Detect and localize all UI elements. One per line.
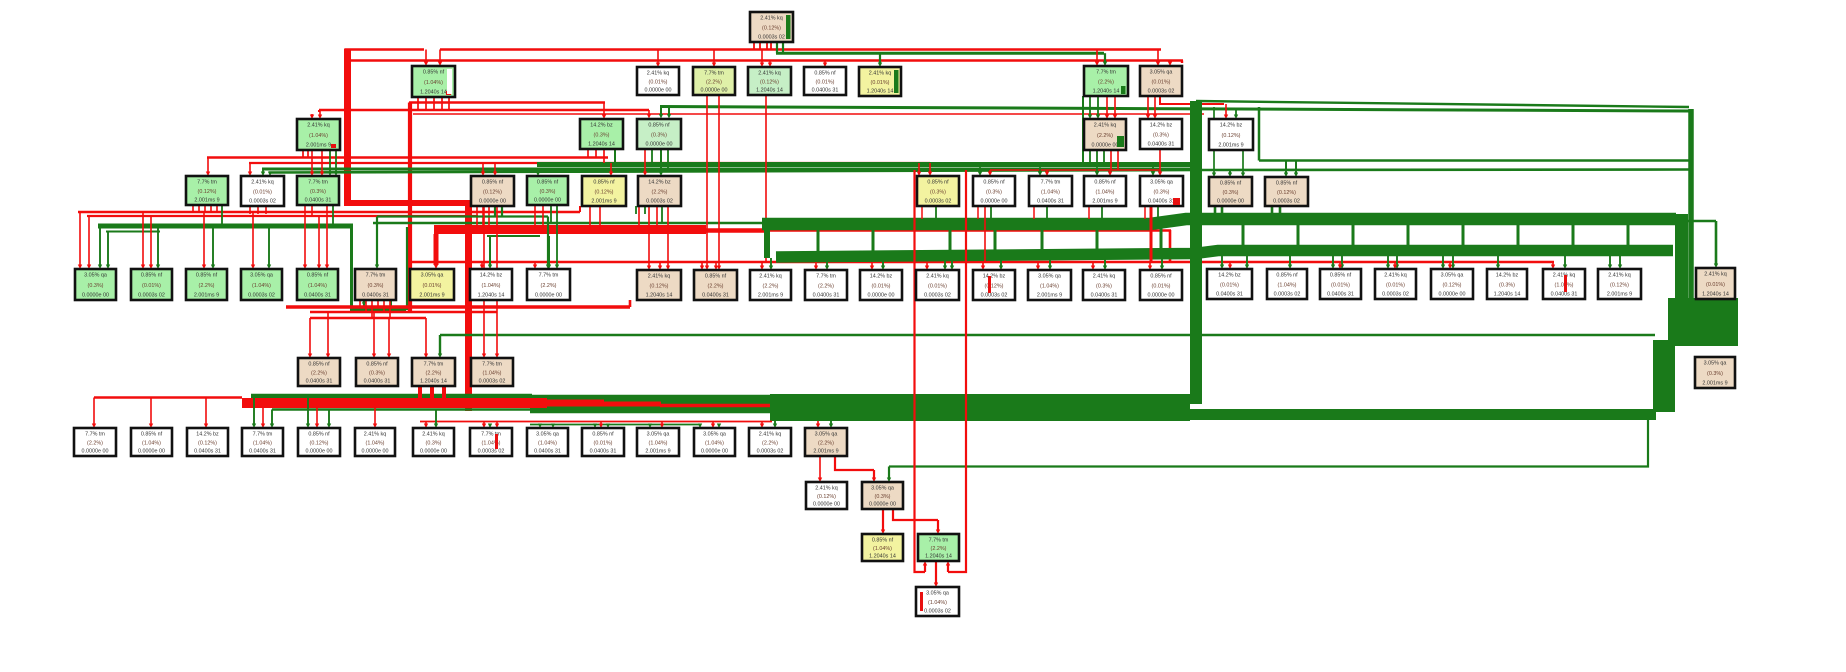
svg-text:3.05% qa: 3.05% qa: [1441, 273, 1464, 279]
svg-text:(0.01%): (0.01%): [1706, 282, 1725, 288]
green y216.5 line D4 to E6/E9: [377, 215, 548, 217]
node E8: [470, 269, 512, 300]
svg-text:0.0400s 31: 0.0400s 31: [194, 449, 221, 455]
C6 top arrows: [1160, 96, 1224, 104]
svg-text:0.0400s 31: 0.0400s 31: [362, 293, 389, 299]
svg-text:2.001ms 9: 2.001ms 9: [1092, 199, 1117, 205]
svg-text:2.001ms 9: 2.001ms 9: [1218, 143, 1243, 149]
band D left strip green: [251, 394, 532, 399]
arrows into F3: [425, 318, 427, 354]
svg-text:0.0000e 00: 0.0000e 00: [362, 449, 389, 455]
svg-text:14.2% bz: 14.2% bz: [1150, 123, 1173, 129]
svg-text:(2.2%): (2.2%): [708, 284, 724, 290]
green band left y231: [106, 231, 160, 233]
G14 to H1: [819, 456, 821, 478]
svg-text:0.0003s 02: 0.0003s 02: [758, 35, 785, 41]
svg-text:7.7% tm: 7.7% tm: [424, 362, 444, 368]
B1 red dot: [446, 91, 451, 95]
svg-text:0.0003s 02: 0.0003s 02: [646, 199, 673, 205]
svg-text:0.85% nf: 0.85% nf: [814, 71, 836, 77]
arrow into D6 from y162: [610, 163, 612, 172]
svg-text:(0.01%): (0.01%): [1331, 283, 1350, 289]
node E28: [1696, 268, 1735, 299]
svg-text:(1.04%): (1.04%): [308, 283, 327, 289]
svg-text:1.2040s 14: 1.2040s 14: [1494, 292, 1521, 298]
svg-text:(0.3%): (0.3%): [930, 190, 946, 196]
svg-text:(0.01%): (0.01%): [872, 284, 891, 290]
svg-text:3.05% qa: 3.05% qa: [1038, 274, 1061, 280]
node E16: [973, 270, 1015, 300]
node D4: [471, 176, 514, 206]
node G7: [413, 428, 454, 456]
A1 red stubs: [753, 42, 755, 49]
svg-text:0.0000e 00: 0.0000e 00: [479, 199, 506, 205]
arrows into D13 D14 from green: [1229, 171, 1231, 174]
D7 to E10 reds: [648, 206, 650, 266]
edge red top bus y50: [345, 48, 424, 51]
svg-text:2.001ms 9: 2.001ms 9: [1607, 292, 1632, 298]
svg-text:3.05% qa: 3.05% qa: [421, 273, 444, 279]
node D14: [1265, 177, 1308, 206]
svg-text:1.2040s 14: 1.2040s 14: [420, 379, 447, 385]
E15 green pair: [944, 258, 946, 266]
svg-text:2.41% kq: 2.41% kq: [759, 432, 781, 438]
svg-text:7.7% tm: 7.7% tm: [308, 180, 328, 186]
svg-text:0.0003s 02: 0.0003s 02: [249, 199, 276, 205]
B3 long drops to E11: [706, 95, 708, 266]
svg-text:0.85% nf: 0.85% nf: [308, 432, 330, 438]
node B7: [1084, 66, 1128, 96]
svg-text:0.0000e 00: 0.0000e 00: [82, 293, 109, 299]
B7 green mark: [1121, 86, 1126, 94]
svg-text:14.2% bz: 14.2% bz: [1220, 123, 1243, 129]
D12 red mark: [1173, 198, 1180, 205]
edge green y100 to right column: [660, 107, 1689, 112]
node G10: [582, 428, 624, 456]
svg-text:2.41% kq: 2.41% kq: [759, 274, 781, 280]
svg-text:3.05% qa: 3.05% qa: [250, 273, 273, 279]
svg-text:0.0003s 02: 0.0003s 02: [1382, 292, 1409, 298]
svg-text:(1.04%): (1.04%): [873, 546, 892, 552]
svg-text:(2.2%): (2.2%): [1098, 80, 1114, 86]
svg-text:(2.2%): (2.2%): [818, 441, 834, 447]
svg-text:0.0000e 00: 0.0000e 00: [1217, 199, 1244, 205]
svg-text:0.0000e 00: 0.0000e 00: [701, 449, 728, 455]
svg-text:0.0003s 02: 0.0003s 02: [1148, 89, 1175, 95]
node E17: [1028, 270, 1071, 300]
edge red y102: [409, 101, 605, 103]
node C6: [1209, 119, 1253, 150]
node D6: [582, 176, 626, 206]
D3 stubs: [304, 205, 306, 212]
svg-text:2.41% kq: 2.41% kq: [1384, 273, 1406, 279]
svg-text:3.05% qa: 3.05% qa: [1150, 70, 1173, 76]
G8 red dash: [495, 434, 498, 449]
svg-text:(1.04%): (1.04%): [1278, 283, 1297, 289]
svg-text:(0.3%): (0.3%): [1153, 133, 1169, 139]
svg-text:0.0003s 02: 0.0003s 02: [248, 293, 275, 299]
red thin y397 left: [94, 396, 242, 398]
arrows into F4 long from D4: [483, 206, 485, 354]
green y466 hook to H2: [889, 419, 1648, 467]
svg-text:0.85% nf: 0.85% nf: [423, 70, 445, 76]
svg-text:0.0400s 31: 0.0400s 31: [1148, 199, 1175, 205]
edge red y157: [207, 156, 608, 159]
svg-text:(0.01%): (0.01%): [594, 441, 613, 447]
node E18: [1083, 270, 1125, 300]
svg-text:(2.2%): (2.2%): [1097, 133, 1113, 139]
D3 to E5 long red: [326, 205, 328, 265]
node B4: [748, 67, 791, 95]
svg-text:1.2040s 14: 1.2040s 14: [925, 554, 952, 560]
svg-text:7.7% tm: 7.7% tm: [481, 432, 501, 438]
node E20: [1207, 269, 1252, 299]
D4 stubs red: [476, 206, 478, 230]
red y318: [310, 317, 426, 319]
E4 arrows: [252, 212, 254, 265]
svg-text:0.0400s 31: 0.0400s 31: [702, 293, 729, 299]
E5 arrows: [304, 212, 306, 265]
C3 stubs down to D7: [644, 148, 646, 172]
svg-text:0.0000e 00: 0.0000e 00: [868, 293, 895, 299]
right column green: [1190, 101, 1202, 404]
A-B connectors right: [1242, 225, 1245, 247]
A1 green stripe: [786, 15, 791, 39]
node E19: [1140, 270, 1182, 300]
svg-text:7.7% tm: 7.7% tm: [816, 274, 836, 280]
block right: [1668, 298, 1738, 346]
thick red horiz y203: [344, 200, 470, 206]
svg-text:2.001ms 9: 2.001ms 9: [591, 199, 616, 205]
node J1: [916, 587, 959, 616]
svg-text:0.85% nf: 0.85% nf: [1094, 180, 1116, 186]
D9 pin long: [984, 206, 986, 262]
svg-text:2.001ms 9: 2.001ms 9: [645, 449, 670, 455]
node E22: [1320, 269, 1361, 299]
svg-text:0.85% nf: 0.85% nf: [593, 180, 615, 186]
svg-text:2.41% kq: 2.41% kq: [1704, 272, 1726, 278]
edge red y114: [413, 113, 1204, 115]
svg-text:(0.01%): (0.01%): [928, 284, 947, 290]
svg-text:(0.12%): (0.12%): [310, 441, 329, 447]
node E2: [131, 269, 172, 300]
svg-text:2.41% kq: 2.41% kq: [422, 432, 444, 438]
svg-text:(1.04%): (1.04%): [1096, 190, 1115, 196]
node A1: [750, 12, 793, 42]
svg-text:0.0400s 31: 0.0400s 31: [590, 449, 617, 455]
svg-text:0.0000e 00: 0.0000e 00: [1439, 292, 1466, 298]
svg-text:0.0400s 31: 0.0400s 31: [1148, 142, 1175, 148]
node E15: [916, 270, 959, 300]
green band y172.5: [269, 170, 1689, 173]
node C2: [580, 119, 623, 149]
node E23: [1375, 269, 1416, 299]
svg-text:0.85% nf: 0.85% nf: [872, 538, 894, 544]
long red verticals to I2 hooks: [915, 170, 926, 572]
svg-text:(2.2%): (2.2%): [762, 441, 778, 447]
thick red band y230: [434, 225, 706, 234]
node G8: [470, 428, 512, 456]
svg-text:0.85% nf: 0.85% nf: [196, 273, 218, 279]
node E11: [694, 270, 737, 300]
svg-text:0.0400s 31: 0.0400s 31: [364, 379, 391, 385]
svg-text:2.41% kq: 2.41% kq: [364, 432, 386, 438]
H2 to I1: [882, 509, 884, 530]
green x407 drop: [406, 227, 408, 310]
svg-text:2.41% kq: 2.41% kq: [648, 274, 670, 280]
svg-text:0.85% nf: 0.85% nf: [366, 362, 388, 368]
C5 to D12: [1152, 165, 1154, 173]
svg-text:1.2040s 14: 1.2040s 14: [646, 293, 673, 299]
svg-text:0.0400s 31: 0.0400s 31: [812, 88, 839, 94]
green band y169: [262, 168, 1196, 171]
B1 white stripe: [447, 69, 452, 94]
node D8: [917, 176, 959, 206]
E26 red dash: [1564, 275, 1567, 292]
svg-text:7.7% tm: 7.7% tm: [1096, 70, 1116, 76]
node G1: [74, 428, 116, 456]
svg-text:7.7% tm: 7.7% tm: [85, 432, 105, 438]
svg-text:(0.12%): (0.12%): [1610, 283, 1629, 289]
edge red y212: [78, 211, 580, 214]
green y335 line to F3: [440, 334, 1655, 336]
node F5: [1695, 357, 1735, 388]
edge red top bus y61: [348, 59, 1183, 61]
C1 stubs down: [302, 150, 304, 158]
svg-text:(2.2%): (2.2%): [87, 441, 103, 447]
green thin y223 mid: [373, 222, 1195, 224]
svg-text:7.7% tm: 7.7% tm: [929, 538, 949, 544]
svg-text:(2.2%): (2.2%): [652, 190, 668, 196]
svg-text:2.41% kq: 2.41% kq: [1608, 273, 1630, 279]
F3 bottom stubs: [418, 386, 422, 400]
node G5: [298, 428, 340, 456]
svg-text:0.85% nf: 0.85% nf: [307, 273, 329, 279]
C2 stubs down: [587, 149, 589, 158]
H2 to I2: [893, 509, 938, 520]
svg-text:3.05% qa: 3.05% qa: [815, 432, 838, 438]
svg-text:0.0003s 02: 0.0003s 02: [981, 293, 1008, 299]
svg-text:3.05% qa: 3.05% qa: [647, 432, 670, 438]
svg-text:1.2040s 14: 1.2040s 14: [1093, 89, 1120, 95]
C1 red dot: [331, 144, 336, 148]
node E12: [750, 270, 791, 300]
svg-text:0.0400s 31: 0.0400s 31: [1551, 292, 1578, 298]
green band end hook into E6 bottom: [352, 227, 407, 310]
svg-text:2.001ms 9: 2.001ms 9: [758, 293, 783, 299]
svg-text:(1.04%): (1.04%): [366, 441, 385, 447]
svg-text:2.001ms 9: 2.001ms 9: [419, 293, 444, 299]
svg-text:(0.3%): (0.3%): [88, 283, 104, 289]
svg-text:0.0000e 00: 0.0000e 00: [82, 449, 109, 455]
node B5: [804, 67, 846, 95]
svg-text:0.0003s 02: 0.0003s 02: [925, 199, 952, 205]
svg-text:(0.3%): (0.3%): [1499, 283, 1515, 289]
red y307: [286, 305, 630, 309]
svg-text:2.41% kq: 2.41% kq: [1093, 274, 1115, 280]
red y230 thin continuation: [764, 229, 1171, 232]
svg-text:(0.3%): (0.3%): [594, 133, 610, 139]
svg-text:7.7% tm: 7.7% tm: [366, 273, 386, 279]
svg-text:0.85% nf: 0.85% nf: [1150, 274, 1172, 280]
D7 stubs: [638, 206, 640, 230]
D1 stubs: [192, 205, 194, 212]
svg-text:0.0400s 31: 0.0400s 31: [305, 198, 332, 204]
svg-text:(0.3%): (0.3%): [426, 441, 442, 447]
node E27: [1598, 269, 1641, 299]
svg-text:0.0003s 02: 0.0003s 02: [1273, 199, 1300, 205]
node G4: [242, 428, 283, 456]
D13 D14 pins into band A: [1214, 206, 1217, 219]
svg-text:0.0000e 00: 0.0000e 00: [869, 502, 896, 508]
node G3: [187, 428, 228, 456]
svg-text:2.001ms 9: 2.001ms 9: [306, 143, 331, 149]
svg-text:(1.04%): (1.04%): [252, 283, 271, 289]
B8 to C5: [1147, 96, 1149, 115]
svg-text:0.0400s 31: 0.0400s 31: [1037, 199, 1064, 205]
node E6: [355, 269, 396, 300]
svg-text:1.2040s 14: 1.2040s 14: [1702, 292, 1729, 298]
edge green y109: [1196, 101, 1689, 107]
svg-text:1.2040s 14: 1.2040s 14: [588, 142, 615, 148]
svg-text:1.2040s 14: 1.2040s 14: [756, 88, 783, 94]
svg-text:(0.12%): (0.12%): [198, 441, 217, 447]
svg-text:0.0400s 31: 0.0400s 31: [1327, 292, 1354, 298]
svg-text:(0.01%): (0.01%): [1152, 80, 1171, 86]
svg-text:0.0400s 31: 0.0400s 31: [249, 449, 276, 455]
E20-E27 arrows: [1221, 251, 1223, 265]
node D7: [638, 176, 681, 206]
band B: [776, 251, 1673, 258]
svg-text:(0.12%): (0.12%): [762, 26, 781, 32]
arrows into D2: [249, 163, 251, 172]
svg-text:0.85% nf: 0.85% nf: [927, 180, 949, 186]
svg-text:(0.01%): (0.01%): [142, 283, 161, 289]
E16 red dash: [988, 276, 991, 293]
svg-text:2.001ms 9: 2.001ms 9: [813, 449, 838, 455]
svg-text:14.2% bz: 14.2% bz: [196, 432, 219, 438]
node G14: [805, 428, 847, 456]
svg-text:3.05% qa: 3.05% qa: [926, 591, 949, 597]
svg-text:0.0003s 02: 0.0003s 02: [924, 293, 951, 299]
node E5: [297, 269, 338, 300]
svg-text:2.41% kq: 2.41% kq: [1094, 123, 1116, 129]
node I1: [862, 534, 903, 561]
svg-text:(0.3%): (0.3%): [540, 189, 556, 195]
svg-text:(0.3%): (0.3%): [1223, 190, 1239, 196]
svg-text:(0.01%): (0.01%): [649, 80, 668, 86]
svg-text:0.0400s 31: 0.0400s 31: [306, 379, 333, 385]
svg-text:7.7% tm: 7.7% tm: [704, 71, 724, 77]
svg-text:7.7% tm: 7.7% tm: [539, 273, 559, 279]
svg-text:(1.04%): (1.04%): [482, 283, 501, 289]
svg-text:0.85% nf: 0.85% nf: [141, 273, 163, 279]
E3 arrows: [203, 212, 205, 265]
G14 to H2: [835, 456, 874, 470]
D5 stubs: [534, 205, 536, 230]
svg-text:3.05% qa: 3.05% qa: [1704, 361, 1727, 367]
node E13: [805, 270, 847, 300]
svg-text:0.0003s 02: 0.0003s 02: [138, 293, 165, 299]
arrows into F1: [309, 318, 311, 354]
node C5: [1140, 119, 1182, 149]
node C4: [1084, 119, 1126, 150]
node E4: [241, 269, 282, 300]
svg-text:14.2% bz: 14.2% bz: [1218, 273, 1241, 279]
red y312: [310, 311, 497, 313]
svg-text:(1.04%): (1.04%): [1040, 284, 1059, 290]
node D12: [1140, 176, 1183, 206]
svg-text:(2.2%): (2.2%): [706, 80, 722, 86]
band A: [762, 219, 1676, 224]
node B1: [412, 66, 455, 97]
node F2: [356, 358, 398, 386]
svg-text:(0.3%): (0.3%): [986, 190, 1002, 196]
svg-text:14.2% bz: 14.2% bz: [590, 123, 613, 129]
svg-text:3.05% qa: 3.05% qa: [871, 486, 894, 492]
node H1: [806, 482, 847, 509]
svg-text:0.0400s 31: 0.0400s 31: [813, 293, 840, 299]
svg-text:(1.04%): (1.04%): [649, 441, 668, 447]
svg-text:14.2% bz: 14.2% bz: [1496, 273, 1519, 279]
svg-text:0.85% nf: 0.85% nf: [1330, 273, 1352, 279]
svg-text:(0.01%): (0.01%): [423, 283, 442, 289]
node H2: [862, 482, 903, 509]
svg-text:0.85% nf: 0.85% nf: [537, 180, 559, 186]
D12 red vertical crossing band: [1150, 206, 1153, 262]
arrows into B1: [425, 50, 427, 63]
svg-text:(0.01%): (0.01%): [1220, 283, 1239, 289]
svg-text:2.001ms 9: 2.001ms 9: [1037, 293, 1062, 299]
node E24: [1431, 269, 1473, 299]
C1 to D3 direct: [311, 150, 313, 172]
svg-text:0.0400s 31: 0.0400s 31: [1091, 293, 1118, 299]
I2 to J1: [935, 561, 937, 583]
B7 to C4: [1089, 96, 1091, 115]
arrow into C2: [603, 103, 605, 116]
svg-text:(1.04%): (1.04%): [705, 441, 724, 447]
A-B connectors: [764, 224, 770, 258]
node E21: [1267, 269, 1307, 299]
J1 red dash: [920, 592, 923, 611]
green y236 line: [487, 235, 540, 237]
svg-text:7.7% tm: 7.7% tm: [197, 180, 217, 186]
node D11: [1084, 176, 1126, 206]
svg-text:2.001ms 9: 2.001ms 9: [194, 198, 219, 204]
svg-text:(1.04%): (1.04%): [142, 441, 161, 447]
node B8: [1140, 66, 1182, 96]
E1 arrows: [79, 212, 81, 265]
node E7: [410, 269, 454, 300]
node C1: [297, 119, 340, 150]
svg-text:14.2% bz: 14.2% bz: [648, 180, 671, 186]
svg-text:(0.01%): (0.01%): [816, 80, 835, 86]
svg-text:2.41% kq: 2.41% kq: [307, 123, 329, 129]
svg-text:(0.3%): (0.3%): [368, 283, 384, 289]
node G11: [637, 428, 679, 456]
svg-text:2.41% kq: 2.41% kq: [869, 71, 891, 77]
node B6: [859, 67, 901, 96]
arrow into D1: [207, 158, 209, 173]
arrows into C1: [318, 110, 320, 112]
node F3: [412, 358, 455, 386]
node G12: [694, 428, 735, 456]
svg-text:0.85% nf: 0.85% nf: [648, 123, 670, 129]
arrows into C3 green from y106: [660, 107, 662, 115]
node G9: [527, 428, 568, 456]
svg-text:(0.12%): (0.12%): [1277, 190, 1296, 196]
svg-text:14.2% bz: 14.2% bz: [870, 274, 893, 280]
